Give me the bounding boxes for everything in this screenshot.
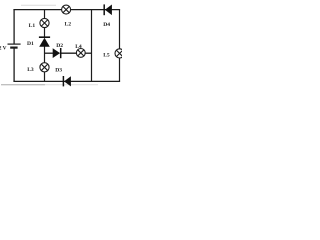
battery 2V long plate xyxy=(8,43,21,45)
diode D2 (pointing right, on middle wire) xyxy=(53,48,61,58)
svg-text:2 V: 2 V xyxy=(0,45,7,51)
wire right below L5 xyxy=(119,58,121,82)
svg-text:L5: L5 xyxy=(103,53,110,59)
wire left lower (from battery) xyxy=(13,48,15,81)
lamp L4 xyxy=(76,49,85,58)
wire L3 to bottom xyxy=(44,72,46,82)
wire middle vertical (top wire to bottom wire) xyxy=(91,10,93,82)
svg-text:L4: L4 xyxy=(75,44,82,50)
wire left upper (to battery) xyxy=(13,10,15,44)
svg-text:D4: D4 xyxy=(103,22,110,28)
svg-text:D3: D3 xyxy=(55,68,62,74)
svg-text:D1: D1 xyxy=(27,41,34,47)
wire top right of L2 xyxy=(70,9,120,11)
svg-text:D2: D2 xyxy=(56,43,63,49)
diode D4 (pointing left, on top wire) xyxy=(104,4,112,15)
wire D1 to L3 (junction of middle branch) xyxy=(44,46,46,62)
lamp L5 (on right wire, clipped by image edge) xyxy=(115,49,124,58)
scan artifact bottom gray line 2 xyxy=(45,84,98,86)
wire branch A top (top wire to L1) xyxy=(44,10,46,19)
wire middle row: L4 to middle vertical xyxy=(85,52,92,54)
svg-text:L2: L2 xyxy=(65,22,72,28)
wire top left of L2 xyxy=(13,9,61,11)
svg-text:L1: L1 xyxy=(29,23,36,29)
lamp L3 xyxy=(40,63,49,72)
diode D1 (pointing up) xyxy=(39,37,50,47)
lamp L1 xyxy=(40,18,49,27)
wire bottom (with D3 on it) xyxy=(13,80,120,82)
scan artifact bottom gray line xyxy=(1,84,45,86)
scan artifact top gray line xyxy=(21,4,56,6)
diode D3 (pointing left, on bottom wire) xyxy=(63,76,71,86)
lamp L2 xyxy=(62,5,71,14)
battery 2V short thick plate xyxy=(10,46,17,48)
wire right above L5 xyxy=(119,10,121,49)
wire L1 to D1 xyxy=(44,28,46,38)
wire middle row: branch A to D2 xyxy=(45,52,54,54)
wire middle row: D2 to L4 xyxy=(61,52,77,54)
svg-text:L3: L3 xyxy=(27,67,34,73)
